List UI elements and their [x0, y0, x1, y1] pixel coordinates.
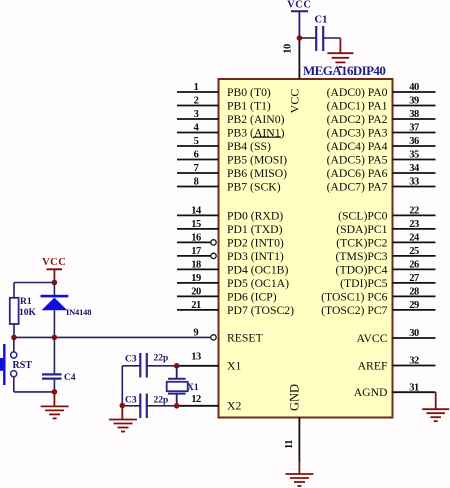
junction node VCC/R1/D1 [52, 280, 58, 286]
junction X1/pin13 [174, 363, 180, 369]
wire VCC junction down to D1 [53, 283, 55, 296]
pin 15 wire PD1 [177, 219, 283, 236]
svg-text:38: 38 [409, 109, 419, 120]
svg-text:39: 39 [409, 96, 419, 107]
wire C1 down to ground (power) [339, 38, 341, 53]
svg-text:(TOSC1) PC6: (TOSC1) PC6 [321, 290, 388, 303]
pin 13 X1 [177, 351, 242, 372]
svg-text:(ADC6) PA6: (ADC6) PA6 [327, 167, 388, 180]
svg-text:PD2 (INT0): PD2 (INT0) [227, 236, 284, 249]
svg-text:15: 15 [191, 219, 201, 230]
svg-text:13: 13 [191, 351, 201, 362]
svg-text:VCC: VCC [288, 89, 302, 114]
svg-text:17: 17 [191, 246, 201, 257]
svg-text:(TCK)PC2: (TCK)PC2 [336, 236, 387, 249]
svg-text:18: 18 [191, 260, 201, 271]
svg-text:C4: C4 [64, 373, 76, 383]
svg-text:PB2 (AIN0): PB2 (AIN0) [227, 113, 285, 126]
svg-text:21: 21 [191, 300, 201, 311]
wire reset node to C4 [53, 337, 55, 373]
pin 18 wire PD4 [177, 260, 288, 277]
svg-text:40: 40 [409, 82, 419, 93]
svg-text:35: 35 [409, 150, 419, 161]
svg-text:PB4 (SS): PB4 (SS) [227, 140, 271, 153]
wire C4 to gnd node [53, 380, 55, 392]
svg-text:22p: 22p [154, 353, 169, 363]
svg-text:IN4148: IN4148 [66, 307, 91, 317]
pin 24 wire PC2 [336, 233, 435, 250]
svg-text:C3: C3 [125, 354, 137, 364]
svg-text:27: 27 [409, 273, 419, 284]
svg-text:C3: C3 [125, 395, 137, 405]
pin 31 wire AGND [354, 382, 436, 399]
pin 3 wire PB2 [177, 109, 285, 126]
ground below pin 11 [286, 474, 314, 486]
svg-text:(TDI)PC5: (TDI)PC5 [340, 277, 388, 290]
svg-text:PB5 (MOSI): PB5 (MOSI) [227, 153, 287, 166]
svg-text:26: 26 [409, 260, 419, 271]
svg-text:(TDO)PC4: (TDO)PC4 [336, 263, 388, 276]
pin 10 wire (VCC) [283, 38, 300, 79]
svg-text:RST: RST [13, 360, 33, 371]
pin 5 wire PB4 [177, 136, 271, 153]
svg-text:2: 2 [194, 96, 199, 107]
svg-text:10K: 10K [19, 308, 37, 318]
svg-text:PD7 (TOSC2): PD7 (TOSC2) [227, 304, 294, 317]
junction D1/C4 [52, 335, 58, 341]
svg-text:MEGA16DIP40: MEGA16DIP40 [303, 63, 385, 78]
pin 29 wire PC7 [321, 300, 435, 317]
ground below C1 [327, 53, 353, 67]
pin 20 wire PD6 [177, 287, 277, 304]
svg-text:PD4 (OC1B): PD4 (OC1B) [227, 263, 288, 276]
svg-text:31: 31 [409, 382, 419, 393]
capacitor C3 (bottom, 22p) [125, 394, 168, 419]
svg-text:29: 29 [409, 300, 419, 311]
svg-text:PB1 (T1): PB1 (T1) [227, 99, 271, 112]
svg-text:(ADC1) PA1: (ADC1) PA1 [327, 99, 388, 112]
svg-text:PD6 (ICP): PD6 (ICP) [227, 290, 277, 303]
svg-text:1: 1 [194, 82, 199, 93]
svg-text:25: 25 [409, 246, 419, 257]
svg-text:32: 32 [409, 356, 419, 367]
capacitor C3 (top, 22p) [125, 353, 168, 378]
svg-text:36: 36 [409, 136, 419, 147]
svg-text:(ADC4) PA4: (ADC4) PA4 [327, 140, 388, 153]
svg-text:AVCC: AVCC [357, 332, 388, 345]
svg-text:11: 11 [284, 440, 295, 449]
svg-text:C1: C1 [315, 15, 328, 26]
wire AGND to ground (power) [435, 392, 437, 409]
svg-text:33: 33 [409, 177, 419, 188]
wire gnd rail to C3a [122, 365, 140, 367]
svg-text:X2: X2 [227, 400, 241, 413]
svg-text:VCC: VCC [42, 257, 66, 268]
pin 17 wire PD3 [177, 246, 284, 263]
svg-text:AGND: AGND [354, 386, 388, 399]
wire D1 to reset node [53, 310, 55, 337]
crystal X1 [167, 366, 199, 406]
svg-text:7: 7 [194, 163, 199, 174]
svg-text:37: 37 [409, 123, 419, 134]
svg-text:VCC: VCC [287, 0, 311, 11]
svg-text:X1: X1 [187, 383, 199, 393]
svg-text:PD0 (RXD): PD0 (RXD) [227, 209, 283, 222]
svg-text:(SDA)PC1: (SDA)PC1 [336, 223, 387, 236]
resistor R1 10K [10, 297, 37, 324]
svg-text:PB7 (SCK): PB7 (SCK) [227, 180, 281, 193]
wire reset node to button [13, 337, 15, 352]
pin 40 wire PA0 [327, 82, 436, 99]
svg-text:3: 3 [194, 109, 199, 120]
junction X1/pin12 [174, 403, 180, 409]
pin 1 wire PB0 [177, 82, 271, 99]
wire junction to C1 [301, 37, 316, 39]
svg-text:(ADC3) PA3: (ADC3) PA3 [327, 126, 388, 139]
svg-text:(ADC2) PA2: (ADC2) PA2 [327, 113, 388, 126]
wire C3a to X1 node [147, 365, 177, 367]
overline for SS (active-low) [253, 136, 281, 138]
pin 30 wire AVCC [357, 328, 436, 345]
svg-text:(TMS)PC3: (TMS)PC3 [336, 250, 388, 263]
svg-text:R1: R1 [20, 297, 32, 307]
op IC U1 MEGA16DIP40 body [219, 79, 393, 418]
wire C1 to ground corner [323, 37, 340, 39]
wire button to gnd rail [13, 377, 15, 392]
pin 2 wire PB1 [177, 96, 271, 113]
svg-text:AREF: AREF [358, 359, 388, 372]
junction R1/button [11, 335, 17, 341]
svg-text:(ADC5) PA5: (ADC5) PA5 [327, 153, 388, 166]
wire to ground (power) [121, 406, 123, 420]
svg-text:12: 12 [191, 394, 201, 405]
wire cap gnd rail vertical [121, 366, 123, 406]
pin 37 wire PA3 [327, 123, 436, 140]
pin 26 wire PC4 [336, 260, 436, 277]
pin 21 wire PD7 [177, 300, 294, 317]
svg-text:6: 6 [194, 150, 199, 161]
svg-text:14: 14 [191, 206, 202, 217]
power VCC (left, net symbol) [42, 257, 66, 283]
svg-text:(ADC7) PA7: (ADC7) PA7 [327, 180, 388, 193]
capacitor C4 [42, 373, 76, 383]
pin 22 wire PC0 [338, 206, 435, 223]
svg-text:10: 10 [283, 44, 294, 54]
svg-text:RESET: RESET [227, 331, 263, 344]
pin 34 wire PA6 [327, 163, 436, 180]
svg-text:24: 24 [409, 233, 420, 244]
junction gnd rail [120, 403, 126, 409]
ground below AGND [422, 409, 449, 421]
pin 14 wire PD0 [177, 206, 283, 223]
svg-text:(TOSC2) PC7: (TOSC2) PC7 [321, 304, 388, 317]
svg-text:X1: X1 [227, 360, 241, 373]
wire C3b to X1 node [147, 405, 177, 407]
pin 27 wire PC5 [340, 273, 435, 290]
wire R1 to reset node [13, 324, 15, 337]
pin 4 wire PB3 [177, 123, 285, 140]
ground below reset circuit [41, 406, 69, 418]
svg-text:20: 20 [191, 287, 201, 298]
pin 12 X2 [177, 394, 242, 413]
svg-text:5: 5 [194, 136, 199, 147]
wire pin11 to ground (power) [298, 462, 300, 474]
svg-text:28: 28 [409, 287, 419, 298]
svg-text:(ADC0) PA0: (ADC0) PA0 [327, 86, 388, 99]
wire VCC junction to R1 branch [14, 282, 54, 284]
svg-text:PB0 (T0): PB0 (T0) [227, 86, 271, 99]
wire down to R1 [13, 283, 15, 298]
svg-text:22p: 22p [154, 395, 169, 405]
junction node VCC/pin10/C1 [297, 35, 303, 41]
pin 33 wire PA7 [327, 177, 436, 194]
diode D1 IN4148 [41, 295, 92, 317]
pin 11 wire (GND) [284, 418, 300, 462]
pin 16 wire PD2 [177, 233, 284, 250]
pin 35 wire PA5 [327, 150, 436, 167]
svg-text:19: 19 [191, 273, 201, 284]
svg-text:8: 8 [194, 177, 199, 188]
power VCC (top, net symbol) [287, 0, 311, 38]
pushbutton RST (SW-PB) [0, 344, 32, 385]
svg-text:23: 23 [409, 219, 419, 230]
svg-text:16: 16 [191, 233, 201, 244]
pin 36 wire PA4 [327, 136, 436, 153]
pin 25 wire PC3 [336, 246, 436, 263]
pin 6 wire PB5 [177, 150, 287, 167]
pin 32 wire AREF [358, 356, 436, 373]
wire gnd node to C3b [122, 405, 140, 407]
pin 38 wire PA2 [327, 109, 436, 126]
svg-text:PB6 (MISO): PB6 (MISO) [227, 167, 287, 180]
pin 7 wire PB6 [177, 163, 287, 180]
wire reset node to pin 9 [14, 336, 211, 338]
svg-text:PD3 (INT1): PD3 (INT1) [227, 250, 284, 263]
svg-text:(SCL)PC0: (SCL)PC0 [338, 209, 388, 222]
junction C4/gnd [52, 389, 58, 395]
pin 39 wire PA1 [327, 96, 436, 113]
pin 8 wire PB7 [177, 177, 281, 194]
svg-text:30: 30 [409, 328, 419, 339]
pin 28 wire PC6 [321, 287, 435, 304]
ground below crystal caps [109, 420, 137, 432]
wire to ground (power) [53, 392, 55, 406]
svg-text:PD1 (TXD): PD1 (TXD) [227, 223, 283, 236]
svg-text:34: 34 [409, 163, 420, 174]
capacitor C1 [315, 15, 328, 52]
pin 23 wire PC1 [336, 219, 435, 236]
svg-text:22: 22 [409, 206, 419, 217]
svg-text:PD5 (OC1A): PD5 (OC1A) [227, 277, 289, 290]
svg-text:GND: GND [287, 384, 301, 411]
pin 9 RESET with bubble [193, 328, 262, 345]
pin 19 wire PD5 [177, 273, 289, 290]
wire button to C4 gnd node [14, 391, 55, 393]
